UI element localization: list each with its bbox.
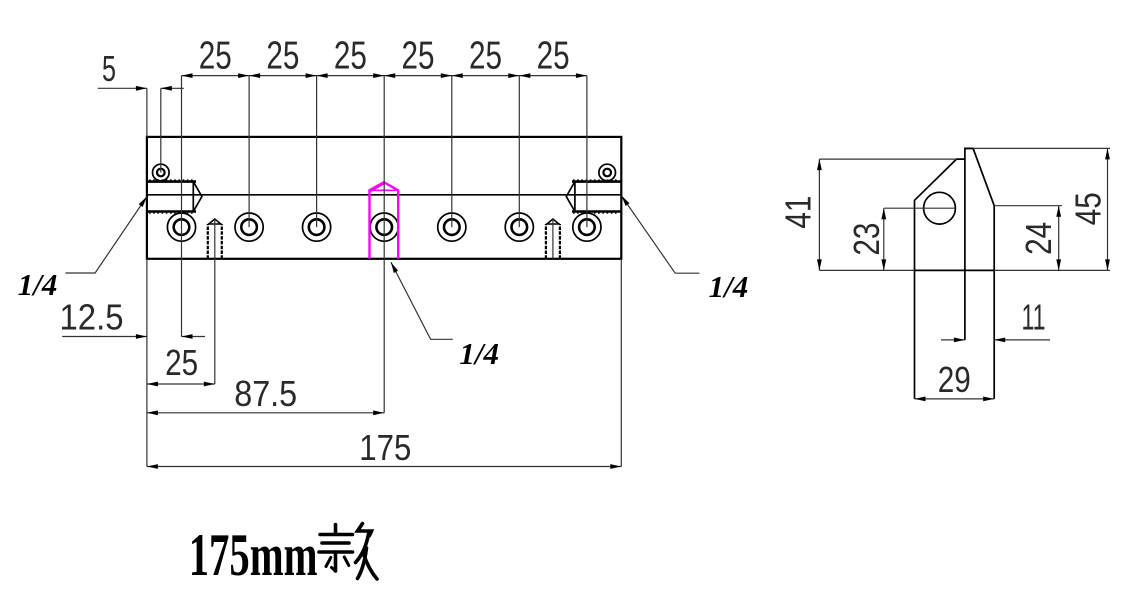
right cutter insert (serrated block with point) (566, 182, 621, 212)
svg-text:41: 41 (778, 196, 819, 229)
side view: holder block outline (915, 159, 965, 270)
svg-text:5: 5 (102, 48, 116, 89)
svg-text:87.5: 87.5 (234, 373, 297, 414)
dim 29: line+arrows (915, 398, 995, 400)
svg-text:1/4: 1/4 (18, 267, 58, 302)
bolt hole 7 (washer + bore) (573, 213, 601, 241)
dim 25 (pin offset): line (147, 383, 215, 385)
bolt hole 4 (washer + bore) (370, 213, 398, 241)
svg-text:1/4: 1/4 (709, 269, 749, 304)
side view: stem right edge (993, 270, 995, 399)
dim 175: line (147, 466, 621, 468)
svg-text:25: 25 (402, 34, 435, 77)
side view: bottom edge (915, 269, 995, 271)
title glyph kuan (drawn strokes) (334, 525, 338, 535)
svg-text:25: 25 (469, 34, 502, 77)
dim 11: lines (941, 339, 965, 341)
leader 1/4 right (621, 196, 699, 274)
svg-text:11: 11 (1022, 297, 1046, 338)
svg-text:175: 175 (359, 427, 411, 468)
svg-text:25: 25 (199, 34, 232, 77)
svg-text:45: 45 (1068, 192, 1109, 225)
svg-text:25: 25 (537, 34, 570, 77)
svg-text:175mm: 175mm (189, 522, 318, 588)
front view: bar mid reference edge (147, 194, 621, 196)
leader 1/4 left (65, 197, 146, 274)
side view: clamp screw hole (924, 192, 956, 224)
dim chain extension line through hole 1 (181, 76, 183, 337)
svg-text:24: 24 (1018, 222, 1059, 255)
side view extension lines (819, 158, 956, 160)
dim 12.5: lines (62, 336, 147, 338)
dim chain extension line hole 6 (518, 76, 520, 228)
dim 25 arrowheads (147, 382, 158, 387)
bolt hole 3 (washer + bore) (303, 213, 331, 241)
svg-text:25: 25 (334, 34, 367, 77)
bolt hole 2 (washer + bore) (235, 213, 263, 241)
svg-text:23: 23 (846, 223, 887, 256)
dim 175 arrowheads (147, 464, 158, 469)
extension: bar right edge downward (620, 259, 622, 467)
right pin (pointed stud) (545, 224, 547, 259)
svg-text:25: 25 (165, 342, 198, 383)
svg-text:29: 29 (938, 359, 971, 400)
dim 41: line+arrows (818, 159, 820, 270)
dim 5: arrowheads (136, 86, 147, 91)
side view: stem left edge (914, 270, 916, 399)
leader 1/4 middle (391, 262, 453, 339)
dim chain extension line hole 7 (586, 76, 588, 228)
front view: tool bar body outline (147, 137, 621, 259)
left cutter insert (serrated block with point) (147, 182, 202, 212)
dim 87.5 arrowheads (147, 410, 158, 415)
left pilot hole (153, 164, 170, 181)
dim 24: line+arrows (1058, 206, 1060, 271)
dim 45: line+arrows (1107, 148, 1109, 270)
bolt hole 5 (washer + bore) (438, 213, 466, 241)
extension: left pin centerline (214, 219, 216, 384)
dim 12.5: arrowheads (136, 334, 147, 339)
dim 5: lines (98, 87, 147, 89)
svg-text:1/4: 1/4 (459, 336, 499, 371)
dim 23: line+arrows (883, 208, 885, 270)
dim 87.5: line (147, 412, 384, 414)
right pilot hole (599, 164, 616, 181)
dim chain extension line hole 5 (451, 76, 453, 228)
dim chain extension line hole 2 (248, 76, 250, 228)
dim 11 arrowheads (954, 338, 965, 343)
dim chain 25x6: dimension line (182, 75, 587, 77)
svg-text:12.5: 12.5 (60, 297, 124, 338)
side view: blade outline (965, 148, 994, 340)
dim chain arrowheads (182, 73, 193, 78)
left pin (pointed stud) (207, 224, 209, 259)
svg-text:25: 25 (266, 34, 299, 77)
extension: bar left edge downward (146, 259, 148, 467)
bolt hole 1 (washer + bore) (167, 213, 195, 241)
bolt hole 6 (washer + bore) (505, 213, 533, 241)
dim chain extension line hole 3 (316, 76, 318, 228)
dim chain extension line through hole 4 (middle) (383, 76, 385, 413)
extension: right pin centerline (552, 219, 554, 259)
highlighted blade (magenta outline, 1/4 insert) (370, 182, 399, 259)
